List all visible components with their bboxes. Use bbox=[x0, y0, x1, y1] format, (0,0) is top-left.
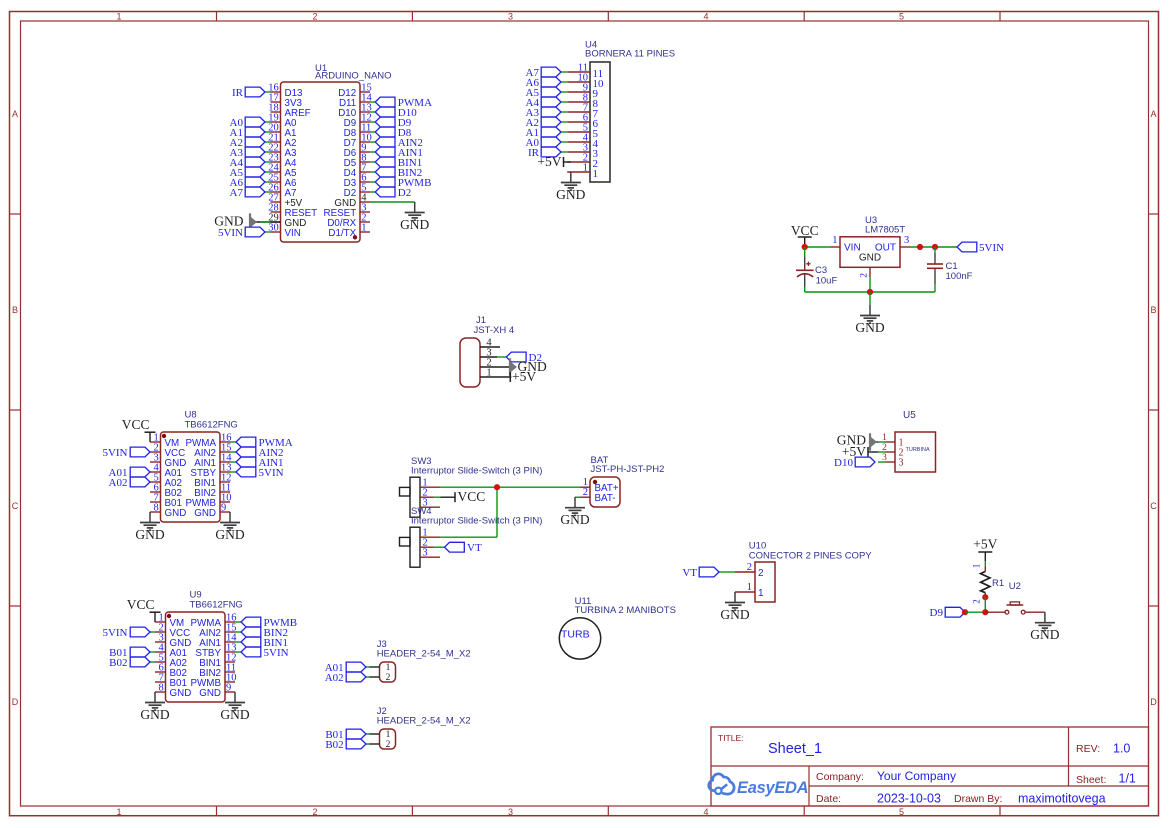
U4 pin 3 bbox=[567, 142, 598, 160]
header J3 body bbox=[380, 662, 396, 682]
U10 reference designator label bbox=[749, 541, 766, 552]
frame column numbers top bbox=[116, 11, 904, 21]
U8 pin 11 (BIN2) bbox=[194, 482, 231, 498]
wire +5V to R1 bbox=[984, 561, 986, 566]
svg-text:BORNERA 11 PINES: BORNERA 11 PINES bbox=[585, 49, 675, 60]
svg-text:4: 4 bbox=[703, 11, 708, 21]
U10 pin 2 bbox=[735, 562, 764, 579]
wire U8 pin 8 to ground bbox=[149, 511, 151, 513]
svg-text:LM7805T: LM7805T bbox=[865, 224, 905, 235]
power flag VCC at U9 pin 1 bbox=[127, 597, 161, 622]
svg-text:Interruptor Slide-Switch (3 PI: Interruptor Slide-Switch (3 PIN) bbox=[411, 466, 542, 477]
svg-text:D: D bbox=[12, 697, 19, 707]
capacitor C3 10uF (polarized) bbox=[796, 247, 814, 292]
U4 pin 5 bbox=[567, 122, 598, 140]
SW3 pin 1 bbox=[420, 478, 440, 489]
U8 pin 8 (GND) bbox=[150, 502, 186, 518]
svg-text:3: 3 bbox=[882, 453, 887, 463]
frame row letters right bbox=[1150, 109, 1157, 707]
U4 pin 10 bbox=[567, 72, 604, 90]
frame column ticks bottom bbox=[217, 806, 1001, 816]
svg-text:3: 3 bbox=[508, 807, 513, 817]
svg-text:TITLE:: TITLE: bbox=[718, 733, 744, 743]
svg-text:VT: VT bbox=[467, 542, 482, 554]
net flag D9 bbox=[930, 607, 965, 619]
part U11 TURBINA 2 MANIBOTS circle bbox=[559, 618, 600, 659]
U8 pin 1 (VM) bbox=[150, 432, 179, 448]
U1 pin 20 (A1) bbox=[268, 122, 296, 138]
net flag AIN2 at U8 pin 15 bbox=[230, 447, 284, 459]
svg-text:A02: A02 bbox=[325, 672, 344, 684]
svg-text:A02: A02 bbox=[109, 477, 128, 489]
U9 pin 5 (A02) bbox=[155, 652, 187, 668]
ground symbol GND at U9 pin 8 bbox=[140, 692, 169, 722]
wire U10 pin1 to ground bbox=[734, 591, 736, 593]
net flag VT at U10 pin 2 bbox=[682, 567, 735, 579]
U9 value label TB6612FNG bbox=[190, 600, 243, 611]
power flag +5V at U4 pin 2 bbox=[537, 154, 570, 169]
svg-text:Drawn By:: Drawn By: bbox=[954, 793, 1002, 805]
ground net flag GND at U1 pin 29 bbox=[214, 213, 280, 230]
ground symbol GND at U1 pin 4 bbox=[400, 202, 429, 232]
connector BAT body bbox=[590, 477, 620, 507]
net flag A2 at U4 bbox=[526, 117, 568, 129]
net flag A0 at U4 bbox=[526, 137, 568, 149]
U4 pin 6 bbox=[567, 112, 598, 130]
svg-text:GND: GND bbox=[1030, 627, 1059, 642]
net flag A7 at U1 bbox=[230, 187, 271, 199]
svg-text:4: 4 bbox=[703, 807, 708, 817]
switch SW4 knob bbox=[400, 537, 411, 546]
svg-text:TURB: TURB bbox=[561, 629, 590, 641]
J2 reference designator label bbox=[377, 706, 387, 717]
svg-text:EasyEDA: EasyEDA bbox=[737, 779, 808, 797]
BAT value label JST-PH-JST-PH2 bbox=[591, 464, 665, 475]
U9 reference designator label bbox=[190, 590, 202, 601]
title block sheet title Sheet_1 bbox=[768, 741, 822, 757]
svg-text:2: 2 bbox=[386, 673, 391, 683]
title block Date label bbox=[816, 793, 841, 805]
power flag +5V at U5 pin 2 bbox=[842, 444, 878, 459]
net flag BIN2 at U1 bbox=[370, 167, 422, 179]
BAT reference designator label bbox=[591, 455, 609, 466]
wire U9 pin 9 to ground bbox=[234, 691, 236, 693]
U1 pin 28 (RESET) bbox=[268, 202, 317, 218]
C1 reference label bbox=[946, 261, 958, 272]
J1 pin 4 bbox=[480, 337, 500, 348]
svg-text:1: 1 bbox=[116, 11, 121, 21]
U8 pin 13 (STBY) bbox=[190, 462, 231, 478]
U1 pin 8 (D5) bbox=[344, 152, 370, 168]
U8 pin 4 (A01) bbox=[150, 462, 182, 478]
BAT pin1 marker dot bbox=[593, 480, 597, 484]
ground symbol GND at U8 pin 8 bbox=[135, 512, 164, 542]
svg-text:Company:: Company: bbox=[816, 771, 864, 783]
svg-text:GND: GND bbox=[560, 512, 589, 527]
J1 pin 2 bbox=[480, 357, 511, 368]
net flag A3 at U1 bbox=[230, 147, 271, 159]
svg-text:2: 2 bbox=[882, 443, 887, 453]
SW4 pin 2 bbox=[420, 538, 434, 549]
U1 pin 12 (D9) bbox=[344, 112, 372, 128]
svg-text:IR: IR bbox=[232, 87, 244, 99]
U1 pin 9 (D6) bbox=[344, 142, 370, 158]
svg-text:HEADER_2-54_M_X2: HEADER_2-54_M_X2 bbox=[377, 715, 471, 726]
U5 internal label TURBINA bbox=[906, 447, 930, 453]
svg-text:C3: C3 bbox=[815, 265, 827, 276]
resistor R1 bbox=[981, 566, 990, 597]
svg-text:3: 3 bbox=[904, 235, 909, 246]
J3 reference designator label bbox=[377, 639, 387, 650]
title block Drawn By label bbox=[954, 793, 1002, 805]
title block Sheet label bbox=[1076, 774, 1106, 786]
junction dot on OUT wire bbox=[917, 244, 923, 250]
frame row ticks left bbox=[10, 214, 21, 606]
U10 value label CONECTOR 2 PINES COPY bbox=[749, 550, 872, 561]
net flag PWMA at U1 bbox=[370, 97, 432, 109]
U1 pin 29 (GND) bbox=[268, 212, 306, 228]
U1 pin 6 (D3) bbox=[344, 172, 370, 188]
title block row divider 1 bbox=[711, 765, 1149, 767]
title block Company label bbox=[816, 771, 864, 783]
U4 pin 9 bbox=[567, 82, 598, 100]
U4 pin 7 bbox=[567, 102, 598, 120]
svg-text:8: 8 bbox=[154, 502, 159, 513]
net flag BIN1 at U1 bbox=[370, 157, 422, 169]
U2 reference designator label bbox=[1009, 581, 1021, 592]
net flag D10 at U1 bbox=[370, 107, 417, 119]
U9 pin 12 (BIN1) bbox=[199, 652, 236, 668]
svg-text:5VIN: 5VIN bbox=[102, 627, 127, 639]
wire U9 pin 8 to ground bbox=[154, 691, 156, 693]
connector U10 body bbox=[755, 562, 775, 602]
U8 pin 6 (B02) bbox=[150, 482, 182, 498]
wire bottom rail of U3 circuit bbox=[805, 291, 935, 293]
wire R1 to D9 node bbox=[984, 597, 986, 612]
U9 pin 13 (STBY) bbox=[195, 642, 236, 658]
svg-text:2: 2 bbox=[386, 740, 391, 750]
J2 value label HEADER_2-54_M_X2 bbox=[377, 715, 471, 726]
wire U3 pin2 down to rail bbox=[869, 277, 871, 292]
net flag AIN1 at U8 pin 14 bbox=[230, 457, 284, 469]
U8 pin 5 (A02) bbox=[150, 472, 182, 488]
svg-text:1: 1 bbox=[758, 588, 764, 599]
net flag A02 at U8 pin 5 bbox=[109, 477, 150, 489]
switch SW4 body bbox=[410, 527, 420, 567]
title block sheet value 1/1 bbox=[1119, 772, 1136, 786]
power flag VCC at U8 pin 1 bbox=[122, 417, 156, 442]
U1 pin1 marker dot bbox=[353, 235, 357, 239]
net flag 5VIN at U8 pin 2 bbox=[102, 447, 150, 459]
U8 pin1 marker dot bbox=[162, 434, 166, 438]
U8 pin 12 (BIN1) bbox=[194, 472, 231, 488]
net flag A01 at J3 pin 1 bbox=[325, 662, 370, 674]
switch SW3 knob bbox=[400, 487, 411, 496]
svg-text:1: 1 bbox=[593, 168, 599, 180]
svg-text:GND: GND bbox=[556, 187, 585, 202]
svg-text:2: 2 bbox=[583, 487, 588, 498]
U11 reference designator label bbox=[575, 596, 592, 607]
svg-text:1: 1 bbox=[832, 235, 837, 246]
net flag 5VIN at U9 pin 13 bbox=[235, 647, 289, 659]
U8 pin 14 (AIN1) bbox=[194, 452, 232, 468]
net flag IR at U4 bbox=[528, 147, 567, 159]
svg-text:3: 3 bbox=[422, 548, 427, 559]
net flag A7 at U4 bbox=[526, 67, 568, 79]
svg-text:+5V: +5V bbox=[537, 154, 561, 169]
U1 pin 7 (D4) bbox=[344, 162, 370, 178]
IC U9 TB6612FNG body bbox=[166, 612, 226, 702]
U8 pin 2 (VCC) bbox=[150, 442, 185, 458]
power flag VCC at SW3 pin 2 bbox=[434, 489, 486, 504]
junction dot bottom rail bbox=[867, 289, 873, 295]
title block drawn by value maximotitovega bbox=[1018, 792, 1106, 806]
U1 reference designator label bbox=[315, 63, 327, 74]
J1 pin 1 bbox=[480, 367, 511, 378]
wire SW3 pin1 to BAT+ bbox=[440, 486, 580, 488]
wire U1 pin4 to ground bbox=[370, 201, 415, 204]
U1 pin 13 (D10) bbox=[338, 102, 371, 118]
SW3 pin 2 bbox=[420, 488, 434, 499]
wire U4 pin1 to ground bbox=[570, 171, 572, 173]
svg-text:VCC: VCC bbox=[127, 597, 155, 612]
svg-text:1/1: 1/1 bbox=[1119, 772, 1136, 786]
net flag A4 at U4 bbox=[526, 97, 568, 109]
wire U3 OUT to 5VIN flag bbox=[910, 246, 957, 248]
BAT pin 1 (BAT+) bbox=[580, 477, 619, 494]
svg-text:GND: GND bbox=[400, 217, 429, 232]
SW4 value label bbox=[411, 516, 542, 527]
U3 GND pin name label bbox=[859, 253, 881, 264]
net flag D9 at U1 bbox=[370, 117, 412, 129]
wire U8 pin 9 to ground bbox=[229, 511, 231, 513]
C1 value label 100nF bbox=[946, 271, 973, 282]
U3 value label LM7805T bbox=[865, 224, 905, 235]
svg-text:5VIN: 5VIN bbox=[264, 647, 289, 659]
net flag AIN2 at U1 bbox=[370, 137, 423, 149]
ground net flag GND at J1 pin 2 bbox=[510, 358, 547, 375]
svg-text:5VIN: 5VIN bbox=[979, 242, 1004, 254]
net flag D8 at U1 bbox=[370, 127, 412, 139]
svg-text:D: D bbox=[1150, 697, 1157, 707]
U10 pin 1 bbox=[735, 582, 764, 599]
title block row divider 2 bbox=[809, 785, 1149, 787]
svg-text:GND: GND bbox=[859, 253, 881, 264]
svg-text:JST-XH 4: JST-XH 4 bbox=[474, 325, 515, 336]
svg-text:100nF: 100nF bbox=[946, 271, 973, 282]
U1 pin 27 (+5V) bbox=[268, 192, 302, 208]
U9 pin 3 (GND) bbox=[155, 632, 191, 648]
U9 pin 14 (AIN1) bbox=[199, 632, 237, 648]
frame row ticks right bbox=[1149, 214, 1159, 606]
svg-text:TURBINA: TURBINA bbox=[906, 447, 930, 453]
svg-text:D10: D10 bbox=[834, 457, 853, 469]
net flag A02 at J3 pin 2 bbox=[325, 672, 370, 684]
svg-text:1: 1 bbox=[882, 433, 887, 443]
svg-text:B02: B02 bbox=[109, 657, 127, 669]
net flag A1 at U4 bbox=[526, 127, 568, 139]
U1 pin 11 (D8) bbox=[344, 122, 372, 138]
U9 pin 4 (A01) bbox=[155, 642, 187, 658]
title block TITLE label bbox=[718, 733, 744, 743]
C3 value label 10uF bbox=[816, 276, 838, 287]
svg-text:CONECTOR 2 PINES COPY: CONECTOR 2 PINES COPY bbox=[749, 550, 872, 561]
frame row letters left bbox=[12, 109, 19, 707]
title block revision value 1.0 bbox=[1113, 742, 1130, 756]
connector U5 body bbox=[895, 432, 936, 472]
U1 pin 19 (A0) bbox=[268, 112, 297, 128]
svg-text:5VIN: 5VIN bbox=[259, 467, 284, 479]
wire BAT pin2 to ground bbox=[575, 496, 581, 498]
U9 pin 15 (AIN2) bbox=[199, 622, 236, 638]
U5 pin 2 bbox=[878, 443, 904, 458]
U1 pin 5 (D2) bbox=[344, 182, 370, 198]
U9 pin 1 (VM) bbox=[155, 612, 184, 628]
J1 value label JST-XH 4 bbox=[474, 325, 515, 336]
svg-text:D1/TX: D1/TX bbox=[328, 228, 356, 239]
U1 pin 3 (RESET) bbox=[324, 202, 370, 218]
junction dot below R1 bbox=[982, 594, 988, 600]
U5 pin 1 bbox=[878, 433, 904, 448]
U1 pin 22 (A3) bbox=[268, 142, 297, 158]
U8 pin 10 (PWMB) bbox=[186, 492, 232, 508]
ground symbol GND at U4 pin 1 bbox=[556, 172, 585, 202]
svg-text:TB6612FNG: TB6612FNG bbox=[185, 420, 238, 431]
net flag 5VIN at U8 pin 13 bbox=[230, 467, 284, 479]
svg-text:TURBINA 2 MANIBOTS: TURBINA 2 MANIBOTS bbox=[575, 605, 676, 616]
U9 pin 6 (B02) bbox=[155, 662, 187, 678]
svg-text:BAT-: BAT- bbox=[595, 493, 616, 504]
net flag A6 at U4 bbox=[526, 77, 568, 89]
U4 pin 1 bbox=[567, 162, 598, 180]
svg-text:5VIN: 5VIN bbox=[218, 227, 243, 239]
svg-text:2: 2 bbox=[312, 11, 317, 21]
net flag A2 at U1 bbox=[230, 137, 271, 149]
U1 pin 21 (A2) bbox=[268, 132, 296, 148]
net flag A4 at U1 bbox=[230, 157, 271, 169]
power flag +5V at J1 pin 1 bbox=[510, 369, 536, 384]
EasyEDA logo text bbox=[737, 779, 808, 797]
svg-text:VCC: VCC bbox=[458, 489, 486, 504]
svg-text:D9: D9 bbox=[930, 607, 944, 619]
U11 value label TURBINA 2 MANIBOTS bbox=[575, 605, 676, 616]
svg-text:2: 2 bbox=[758, 568, 764, 579]
svg-text:Your Company: Your Company bbox=[877, 769, 956, 783]
svg-text:B: B bbox=[12, 305, 18, 315]
U8 reference designator label bbox=[185, 410, 197, 421]
J3 value label HEADER_2-54_M_X2 bbox=[377, 648, 471, 659]
junction dot SW3/SW4 node bbox=[494, 484, 500, 490]
regulator U3 LM7805T body bbox=[840, 237, 900, 267]
svg-text:HEADER_2-54_M_X2: HEADER_2-54_M_X2 bbox=[377, 648, 471, 659]
title block REV column divider bbox=[1068, 727, 1070, 786]
U9 pin 11 (BIN2) bbox=[199, 662, 236, 678]
svg-text:1: 1 bbox=[972, 564, 982, 569]
J2 pin 1 bbox=[370, 730, 391, 740]
push button U2 bbox=[1005, 602, 1025, 614]
net flag D2 at J1 pin 3 bbox=[497, 352, 542, 364]
svg-text:maximotitovega: maximotitovega bbox=[1018, 792, 1106, 806]
net flag A3 at U4 bbox=[526, 107, 568, 119]
U1 pin 25 (A6) bbox=[268, 172, 297, 188]
U8 pin 15 (AIN2) bbox=[194, 442, 231, 458]
U3 pin 2 stub bbox=[860, 267, 871, 277]
svg-text:GND: GND bbox=[215, 527, 244, 542]
U8 pin 16 (PWMA) bbox=[186, 432, 232, 448]
SW3 reference designator label bbox=[411, 456, 432, 467]
svg-text:A7: A7 bbox=[230, 187, 244, 199]
svg-text:B02: B02 bbox=[325, 739, 343, 751]
U9 pin1 marker dot bbox=[167, 614, 171, 618]
U8 pin 3 (GND) bbox=[150, 452, 186, 468]
svg-text:5: 5 bbox=[899, 807, 904, 817]
svg-text:1: 1 bbox=[486, 367, 491, 378]
U1 pin 16 (D13) bbox=[268, 82, 303, 98]
ground net flag GND at U5 pin 1 bbox=[837, 433, 878, 451]
net flag B02 at J2 pin 2 bbox=[325, 739, 369, 751]
U9 pin 7 (B01) bbox=[155, 672, 187, 688]
U4 pin 11 bbox=[567, 62, 603, 80]
svg-text:JST-PH-JST-PH2: JST-PH-JST-PH2 bbox=[591, 464, 665, 475]
net flag PWMB at U1 bbox=[370, 177, 431, 189]
capacitor C1 100nF bbox=[927, 247, 943, 292]
wire node to U2 terminal bbox=[985, 611, 1005, 613]
R1 reference designator label bbox=[992, 578, 1004, 589]
U1 pin 15 (D12) bbox=[338, 82, 371, 98]
header J2 body bbox=[380, 729, 396, 749]
frame column numbers bottom bbox=[116, 807, 904, 817]
svg-text:B: B bbox=[1150, 305, 1156, 315]
frame column ticks top bbox=[217, 12, 1001, 22]
U1 pin 26 (A7) bbox=[268, 182, 296, 198]
svg-text:GND: GND bbox=[720, 607, 749, 622]
svg-text:TB6612FNG: TB6612FNG bbox=[190, 600, 243, 611]
svg-text:2: 2 bbox=[972, 599, 982, 604]
svg-text:2023-10-03: 2023-10-03 bbox=[877, 792, 941, 806]
junction dot VCC node bbox=[802, 244, 808, 250]
svg-text:1: 1 bbox=[583, 162, 588, 173]
U1 pin 10 (D7) bbox=[344, 132, 372, 148]
svg-text:GND: GND bbox=[199, 688, 221, 699]
ground symbol GND at U10 pin 1 bbox=[720, 592, 749, 622]
U1 pin 14 (D11) bbox=[339, 92, 373, 108]
svg-text:+5V: +5V bbox=[973, 537, 997, 552]
SW3 pin 3 bbox=[420, 498, 440, 509]
svg-text:Interruptor Slide-Switch (3 PI: Interruptor Slide-Switch (3 PIN) bbox=[411, 516, 542, 527]
wire SW4 pin1 up to junction bbox=[440, 487, 497, 537]
svg-text:Sheet:: Sheet: bbox=[1076, 774, 1106, 786]
svg-text:VT: VT bbox=[682, 567, 697, 579]
wire D9 to button node bbox=[965, 611, 985, 613]
connector U4 BORNERA 11 PINES body bbox=[590, 62, 610, 182]
C3 reference label bbox=[815, 265, 827, 276]
IC U1 ARDUINO_NANO body bbox=[281, 82, 361, 242]
svg-text:GND: GND bbox=[855, 320, 884, 335]
net flag B02 at U9 pin 5 bbox=[109, 657, 155, 669]
net flag BIN1 at U9 pin 14 bbox=[235, 637, 288, 649]
svg-text:3: 3 bbox=[899, 457, 904, 468]
ground symbol GND below U3 bbox=[855, 305, 884, 335]
ground symbol GND at BAT pin 2 bbox=[560, 497, 589, 527]
svg-text:R1: R1 bbox=[992, 578, 1004, 589]
junction dot at C1 tap bbox=[932, 244, 938, 250]
wire rail to ground bbox=[869, 292, 871, 305]
net flag 5VIN at U9 pin 2 bbox=[102, 627, 155, 639]
svg-text:REV:: REV: bbox=[1076, 743, 1100, 755]
U4 value label BORNERA 11 PINES bbox=[585, 49, 675, 60]
net flag A01 at U8 pin 4 bbox=[109, 467, 150, 479]
svg-text:Sheet_1: Sheet_1 bbox=[768, 741, 822, 757]
